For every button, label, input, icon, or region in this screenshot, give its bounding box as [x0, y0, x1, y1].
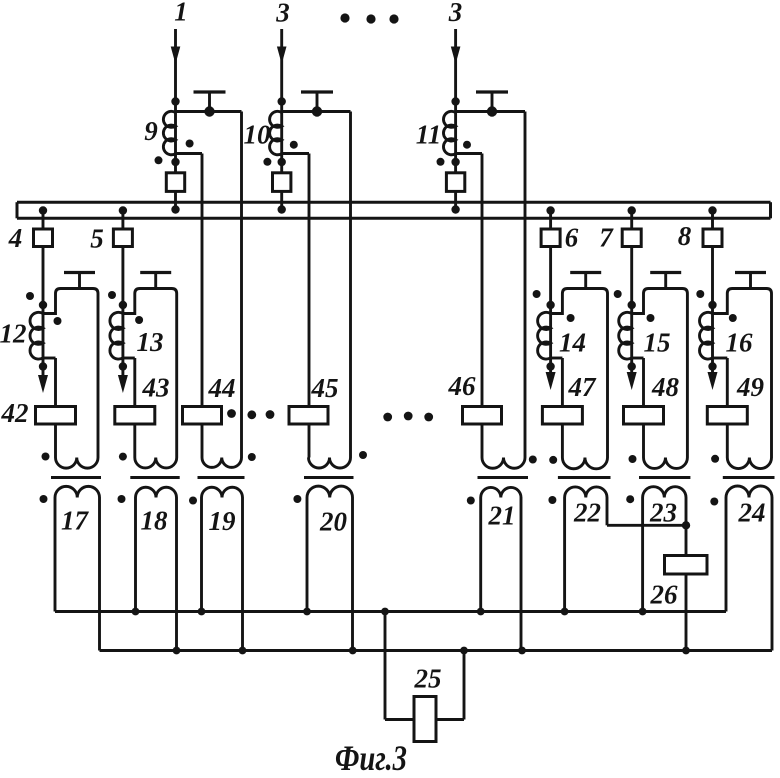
node on lower bus x=176.5	[173, 647, 181, 655]
input arrow (section 9)	[174, 29, 177, 104]
wire T-junction horizontal (section 9)	[176, 110, 242, 113]
resistor block 49	[707, 407, 747, 425]
inductor winding 14	[538, 312, 551, 359]
svg-text:46: 46	[448, 371, 477, 401]
secondary scallop winding 24	[726, 486, 772, 497]
inductor winding 13	[110, 312, 123, 359]
node above winding 15	[628, 301, 636, 309]
wire jog to inner vertical (section 11)	[456, 152, 482, 155]
fuse square (section 11)	[446, 173, 464, 192]
svg-text:20: 20	[319, 507, 348, 537]
wire secondary 24 right leg	[771, 498, 774, 651]
svg-text:17: 17	[61, 506, 90, 536]
wire fuse 5 to winding 13	[121, 245, 124, 314]
node T junction (section 11)	[487, 106, 497, 116]
svg-text:45: 45	[311, 373, 339, 403]
wire lower output bus	[100, 649, 773, 652]
polarity dot right of winding 13	[135, 316, 143, 324]
inductor winding 11	[443, 111, 455, 154]
polarity dot at scallops (transformer 48)	[629, 455, 637, 463]
fuse square 4	[34, 229, 53, 247]
fuse square 7	[622, 229, 641, 247]
polarity dot of secondary 17	[40, 495, 48, 503]
svg-text:14: 14	[559, 328, 586, 358]
svg-text:49: 49	[736, 372, 765, 402]
polarity dot at scallops (transformer 49)	[711, 455, 719, 463]
svg-text:10: 10	[244, 120, 272, 150]
node above winding 13	[119, 301, 127, 309]
svg-text:19: 19	[209, 506, 237, 536]
transformer core bar (47/22)	[558, 476, 611, 479]
polarity dot of secondary 21	[467, 497, 475, 505]
svg-text:42: 42	[1, 398, 29, 428]
svg-text:1: 1	[174, 0, 188, 27]
resistor block 47	[542, 407, 582, 425]
polarity dot right of winding 12	[54, 317, 62, 325]
svg-text:23: 23	[649, 498, 677, 528]
resistor block 42	[36, 407, 76, 425]
node on upper bus x=480.7	[477, 608, 485, 616]
secondary scallop winding 19	[202, 487, 243, 497]
fuse square 6	[541, 229, 560, 247]
polarity dot left of loop (section 49)	[696, 290, 704, 298]
secondary scallop winding 17	[55, 486, 100, 497]
wire main vertical (section 11)	[454, 102, 457, 175]
polarity dot right of winding 16	[729, 314, 737, 322]
polarity dot below winding 9	[155, 156, 163, 164]
terminal T symbol (section 42)	[64, 271, 95, 274]
primary scallop winding (transformer 43)	[135, 458, 177, 468]
svg-text:5: 5	[90, 224, 104, 254]
primary scallop winding (transformer 44)	[202, 458, 242, 468]
node on lower bus x=464	[460, 647, 468, 655]
node bus connection (fuse 5)	[119, 206, 127, 214]
wire right vertical down to transformer (section 9)	[240, 112, 243, 458]
svg-text:47: 47	[568, 372, 598, 402]
svg-text:7: 7	[599, 223, 614, 253]
secondary scallop winding 20	[307, 486, 353, 497]
wire secondary 18 right leg	[175, 498, 178, 651]
terminal T symbol (section 9)	[194, 90, 226, 93]
wire secondary 18 left leg	[134, 498, 137, 612]
input arrow (section 11)	[454, 29, 457, 104]
node bus connection (section 11)	[451, 205, 459, 213]
wire secondary 17 right leg	[98, 498, 101, 651]
polarity dot of secondary 19	[189, 497, 197, 505]
wire inner vertical down to block (section 9)	[201, 154, 204, 458]
terminal T symbol (section 49)	[735, 271, 766, 274]
svg-text:12: 12	[0, 319, 27, 349]
terminal T symbol (section 11)	[476, 90, 508, 93]
primary scallop winding (transformer 48)	[644, 458, 688, 469]
primary scallop winding (transformer 45)	[309, 458, 351, 469]
polarity dot at scallops (transformer 46)	[529, 456, 537, 464]
primary scallop winding (transformer 49)	[727, 458, 771, 469]
wire right vertical down to transformer (section 10)	[349, 112, 352, 458]
svg-text:21: 21	[488, 501, 516, 531]
node below winding 12	[39, 362, 47, 370]
svg-text:11: 11	[416, 120, 442, 150]
node bus connection (section 10)	[278, 205, 286, 213]
node T junction (section 10)	[312, 106, 322, 116]
node on lower bus x=522	[518, 647, 526, 655]
node above winding 16	[708, 301, 716, 309]
wire fuse 8 to winding 16	[711, 245, 714, 314]
wire inner vertical down to block (section 11)	[481, 154, 484, 458]
wire upper bus down to resistor 25	[384, 612, 387, 720]
transformer core bar (49/24)	[723, 476, 775, 479]
wire secondary 21 right leg	[520, 498, 523, 651]
terminal T symbol (section 47)	[570, 271, 601, 274]
wire secondary 22 left leg	[563, 498, 566, 612]
node on upper bus x=135.5	[132, 608, 140, 616]
wire fuse 4 to winding 12	[42, 245, 45, 314]
wire secondary 22 right leg with jog to 23	[606, 498, 609, 526]
wire jog to inner vertical (section 9)	[176, 152, 203, 155]
wire tap with arrow (winding 16)	[711, 314, 714, 380]
svg-text:24: 24	[738, 498, 766, 528]
wire inner vertical down to block (section 10)	[308, 154, 311, 458]
node on upper bus x=201.5	[198, 608, 206, 616]
wire resistor 26 to lower bus	[685, 573, 688, 651]
wire bus to fuse 4	[42, 211, 45, 231]
node below winding 13	[119, 362, 127, 370]
secondary scallop winding 21	[481, 487, 521, 497]
wire secondary 19 right leg	[241, 498, 244, 651]
wire secondary 23 left leg	[641, 498, 644, 612]
input arrow (section 10)	[280, 29, 283, 104]
polarity dot at scallops (transformer 45)	[359, 451, 367, 459]
polarity dot left of loop (section 42)	[26, 292, 34, 300]
wire main vertical (section 9)	[174, 102, 177, 175]
transformer core bar (43/18)	[130, 476, 179, 479]
svg-text:25: 25	[414, 664, 442, 694]
svg-text:9: 9	[144, 116, 158, 146]
svg-text:44: 44	[208, 373, 236, 403]
node below winding 10	[278, 158, 286, 166]
node bus connection (section 9)	[171, 205, 179, 213]
svg-text:8: 8	[678, 221, 692, 251]
svg-text:3: 3	[448, 0, 463, 27]
wire resistor 25 to lower bus	[435, 718, 464, 721]
wire bus to fuse 8	[711, 211, 714, 231]
polarity dot left of loop (section 48)	[614, 290, 622, 298]
resistor block 44	[183, 407, 222, 425]
svg-text:3: 3	[275, 0, 290, 28]
wire secondary 19 left leg	[200, 498, 203, 612]
polarity dot below winding 11	[437, 158, 445, 166]
node on lower bus x=242.5	[239, 647, 247, 655]
inductor winding 15	[619, 312, 632, 359]
node at top of winding 11	[451, 97, 459, 105]
resistor 25	[414, 697, 436, 742]
svg-text:Фиг.3: Фиг.3	[335, 738, 407, 773]
polarity dot right of winding 14	[567, 314, 575, 322]
node bus connection (fuse 7)	[628, 206, 636, 214]
fuse square 8	[703, 229, 722, 247]
wire T-junction horizontal (section 11)	[456, 110, 525, 113]
node above winding 14	[546, 301, 554, 309]
wire bus to fuse 7	[630, 211, 633, 231]
wire primary loop of transformer (section 49)	[713, 289, 772, 458]
wire jog to inner vertical (section 10)	[282, 152, 309, 155]
wire primary loop of transformer (section 48)	[632, 289, 688, 458]
wire bus to fuse 5	[121, 211, 124, 231]
polarity dot of winding 9	[186, 140, 194, 148]
node below winding 15	[628, 362, 636, 370]
transformer core bar (45/20)	[304, 476, 354, 479]
svg-text:48: 48	[651, 372, 680, 402]
polarity dot at scallops (transformer 47)	[549, 456, 557, 464]
terminal T symbol (section 10)	[301, 90, 333, 93]
inductor winding 10	[270, 111, 282, 154]
node below winding 14	[546, 362, 554, 370]
node junction 22-23 link	[682, 521, 690, 529]
wire secondary 24 left leg	[725, 498, 728, 612]
wire secondary 20 left leg	[306, 498, 309, 612]
wire secondary 20 right leg	[351, 498, 354, 651]
svg-text:4: 4	[8, 223, 23, 253]
wire tap with arrow (winding 15)	[630, 314, 633, 380]
node on lower bus x=352.7	[349, 647, 357, 655]
wire secondary 23 right leg to resistor 26	[685, 498, 688, 557]
ellipsis dots (between 44 and 45)	[227, 409, 236, 418]
wire upper output bus	[55, 610, 726, 613]
polarity dot below winding 10	[263, 158, 271, 166]
wire tap with arrow (winding 13)	[121, 314, 124, 380]
transformer core bar (42/17)	[51, 476, 101, 479]
svg-text:15: 15	[644, 328, 671, 358]
node on lower bus x=686	[682, 647, 690, 655]
node on upper bus x=564.6	[561, 608, 569, 616]
wire primary loop of transformer (section 47)	[551, 289, 608, 458]
polarity dot right of winding 15	[647, 314, 655, 322]
bus bar (double line)	[17, 201, 771, 204]
svg-text:26: 26	[650, 580, 679, 610]
node bus connection (fuse 6)	[546, 206, 554, 214]
resistor block 45	[289, 407, 328, 425]
inductor winding 9	[163, 111, 175, 154]
polarity dot of secondary 24	[710, 498, 718, 506]
resistor block 48	[624, 407, 664, 425]
node at top of winding 10	[278, 97, 286, 105]
wire secondary 17 left leg	[54, 498, 57, 612]
wire fuse 6 to winding 14	[549, 245, 552, 314]
terminal T symbol (section 48)	[650, 271, 681, 274]
resistor block 43	[115, 407, 155, 425]
polarity dot of secondary 23	[626, 495, 634, 503]
polarity dot at scallops (transformer 42)	[42, 453, 50, 461]
wire main vertical (section 10)	[280, 102, 283, 175]
wire primary loop of transformer (section 42)	[43, 289, 98, 458]
node above winding 12	[39, 301, 47, 309]
node on upper bus x=642.6	[639, 608, 647, 616]
svg-text:22: 22	[573, 498, 601, 528]
wire primary loop of transformer (section 43)	[123, 289, 177, 458]
polarity dot of winding 10	[290, 141, 298, 149]
wire bus to fuse 6	[549, 211, 552, 231]
transformer core bar (46/21)	[478, 476, 529, 479]
resistor block 46	[463, 407, 502, 425]
svg-text:13: 13	[137, 327, 164, 357]
node at top of winding 9	[171, 97, 179, 105]
node T junction (section 9)	[204, 106, 214, 116]
node bus connection (fuse 8)	[708, 206, 716, 214]
node below winding 11	[451, 158, 459, 166]
resistor 26	[665, 556, 708, 575]
wire fuse 7 to winding 15	[630, 245, 633, 314]
fuse square (section 9)	[166, 173, 184, 192]
node below winding 16	[708, 362, 716, 370]
polarity dot of secondary 18	[118, 495, 126, 503]
ellipsis dots (between 45 and 46)	[383, 413, 392, 422]
transformer core bar (48/23)	[639, 476, 690, 479]
inductor winding 12	[30, 312, 43, 359]
transformer core bar (44/19)	[198, 476, 245, 479]
node bus connection (fuse 4)	[39, 206, 47, 214]
polarity dot at scallops (transformer 43)	[119, 453, 127, 461]
primary scallop winding (transformer 46)	[482, 458, 525, 469]
secondary scallop winding 23	[643, 487, 686, 498]
svg-text:18: 18	[141, 506, 169, 536]
wire T-junction horizontal (section 10)	[282, 110, 351, 113]
wire right vertical down to transformer (section 11)	[524, 112, 527, 458]
polarity dot of secondary 22	[548, 496, 556, 504]
svg-text:6: 6	[565, 223, 579, 253]
wire tap with arrow (winding 12)	[42, 314, 45, 380]
secondary scallop winding 18	[136, 487, 177, 497]
fuse square (section 10)	[273, 173, 291, 192]
ellipsis dots (top)	[340, 13, 349, 22]
wire tap with arrow (winding 14)	[549, 314, 552, 380]
svg-text:16: 16	[726, 328, 754, 358]
node on upper bus x=307	[303, 608, 311, 616]
polarity dot left of loop (section 47)	[533, 290, 541, 298]
polarity dot left of loop (section 43)	[108, 291, 116, 299]
terminal T symbol (section 43)	[140, 271, 171, 274]
wire secondary 21 left leg	[479, 498, 482, 612]
primary scallop winding (transformer 47)	[562, 458, 607, 469]
polarity dot at scallops (transformer 44)	[248, 453, 256, 461]
secondary scallop winding 22	[565, 487, 607, 498]
primary scallop winding (transformer 42)	[56, 457, 99, 468]
polarity dot of winding 11	[463, 141, 471, 149]
node below winding 9	[171, 158, 179, 166]
fuse square 5	[113, 229, 132, 247]
svg-text:43: 43	[142, 373, 170, 403]
inductor winding 16	[700, 312, 713, 359]
node on upper bus x=385	[381, 608, 389, 616]
polarity dot of secondary 20	[293, 495, 301, 503]
